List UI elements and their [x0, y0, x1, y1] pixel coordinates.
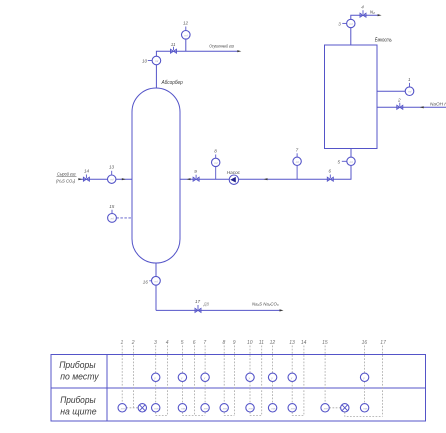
svg-text:по месту: по месту [60, 372, 100, 382]
valve 9 [193, 175, 199, 181]
valve 6 [327, 175, 333, 182]
arrow circulation mid [264, 178, 268, 180]
leader col17 [345, 346, 383, 417]
label underline [57, 176, 77, 178]
instrument circle 5 [347, 157, 355, 165]
svg-text:6: 6 [329, 169, 332, 174]
wire N2 purge line [351, 15, 379, 45]
svg-text:14: 14 [84, 168, 90, 173]
table row2 circle col10 [246, 404, 254, 412]
leader col3 [156, 346, 168, 416]
svg-text:13: 13 [289, 340, 295, 346]
table row1 circle col3 [152, 373, 160, 381]
wire raw gas feed [79, 178, 133, 180]
arrow NaOH [420, 106, 424, 108]
svg-text:тн: тн [271, 406, 275, 410]
svg-text:1: 1 [121, 340, 124, 346]
table row1 circle col12 [268, 373, 276, 381]
svg-text:6: 6 [193, 340, 196, 346]
valve 4 [360, 10, 366, 17]
leader col6 [194, 346, 196, 416]
svg-text:16: 16 [143, 279, 149, 284]
wire impulse line 15 [116, 217, 132, 219]
svg-text:8: 8 [223, 340, 226, 346]
svg-text:17: 17 [380, 340, 386, 346]
svg-text:4: 4 [166, 340, 169, 346]
svg-text:N₂: N₂ [370, 10, 375, 15]
table row2 circle col13 [288, 404, 296, 412]
wire bottom drain pipe [156, 309, 281, 311]
node 5 tag line [342, 160, 347, 162]
table row1 circle col5 [178, 373, 186, 381]
table row2 circle col12 [268, 404, 276, 412]
svg-text:2: 2 [397, 97, 401, 102]
wire top gas outlet riser [156, 51, 238, 88]
svg-text:тн: тн [181, 406, 185, 410]
pump насос [229, 175, 238, 184]
svg-text:10: 10 [247, 340, 253, 346]
svg-text:Приборы: Приборы [60, 395, 96, 405]
table row2 circle col7 [201, 404, 209, 412]
table midline [51, 387, 426, 389]
svg-text:16: 16 [362, 340, 368, 346]
svg-text:8: 8 [214, 149, 217, 154]
table frame [51, 355, 426, 422]
svg-text:Na₂S Na₂CO₃: Na₂S Na₂CO₃ [252, 302, 279, 307]
svg-text:10: 10 [142, 59, 148, 64]
wire tank level stub [377, 90, 405, 92]
svg-text:Осушенный газ: Осушенный газ [209, 43, 234, 49]
table row1 circle col7 [201, 373, 209, 381]
svg-text:тн: тн [324, 406, 328, 410]
leader col12 [272, 346, 274, 404]
svg-text:11: 11 [171, 42, 176, 47]
svg-text:12: 12 [183, 20, 189, 25]
svg-text:тн: тн [363, 406, 367, 410]
svg-text:на щите: на щите [60, 407, 96, 417]
svg-text:9: 9 [233, 340, 236, 346]
table row2 crossed circle 16a [341, 404, 349, 412]
svg-text:тн: тн [121, 406, 125, 410]
instrument circle 7 [296, 166, 298, 180]
table row2 circle col3 [152, 404, 160, 412]
leader col14 [303, 346, 305, 416]
instrument circle 1 [405, 87, 414, 96]
arrow drain [280, 309, 284, 311]
svg-text:9: 9 [194, 169, 197, 174]
svg-text:1: 1 [408, 77, 411, 82]
svg-text:7: 7 [203, 340, 206, 346]
vessel absorber [132, 88, 180, 263]
wire bottom drain riser [155, 263, 157, 310]
svg-text:тl: тl [408, 90, 411, 94]
instrument circle 13 [108, 175, 116, 183]
svg-text:5: 5 [338, 159, 341, 164]
svg-text:тl: тl [155, 279, 158, 283]
svg-text:тн: тн [154, 406, 158, 410]
table row2 circle col8 [220, 404, 228, 412]
leader col13 [292, 346, 304, 416]
svg-text:Насос: Насос [227, 170, 241, 175]
table row1 circle col10 [246, 373, 254, 381]
leader col11 [261, 346, 263, 416]
svg-text:тн: тн [291, 406, 295, 410]
arrow feed at vessel [122, 178, 126, 180]
leader col8 [224, 346, 234, 416]
svg-text:тн: тн [204, 406, 208, 410]
valve 14 [83, 175, 89, 182]
valve 2 [397, 103, 403, 110]
svg-text:2: 2 [131, 340, 135, 346]
leader col7 [204, 346, 206, 416]
table row2 crossed circle 2 [138, 404, 146, 412]
svg-text:17: 17 [195, 299, 201, 304]
svg-text:Абсорбер: Абсорбер [161, 80, 183, 86]
svg-text:13: 13 [109, 165, 115, 170]
svg-text:тн: тн [249, 406, 253, 410]
svg-text:тн: тн [223, 406, 227, 410]
table row1 circle col13 [288, 373, 296, 381]
wire NaOH feed [377, 106, 446, 108]
table row2 circle col15 [321, 404, 329, 412]
svg-text:тl: тl [349, 22, 352, 26]
svg-text:Приборы: Приборы [59, 360, 96, 370]
leader col9 [233, 346, 235, 416]
arrow circulation near vessel [187, 178, 191, 180]
instrument circle 8 [215, 167, 217, 180]
svg-text:тl: тl [111, 216, 114, 220]
svg-text:11: 11 [259, 340, 264, 346]
svg-text:15: 15 [322, 340, 328, 346]
svg-text:14: 14 [301, 340, 307, 346]
leader col2 [126, 346, 138, 408]
instrument circle 12 [182, 31, 191, 40]
svg-text:(H₂S CO₂): (H₂S CO₂) [56, 179, 76, 184]
table header divider [106, 355, 108, 422]
node 16 tag line [149, 280, 151, 282]
wire circulation pipe vessel to tank [180, 149, 351, 180]
leader col16 [364, 346, 366, 404]
valve 11 [171, 47, 177, 54]
table row2 circle col16 [360, 404, 368, 412]
leader col1 [121, 346, 123, 404]
arrow feed start [78, 178, 82, 180]
leader col5 [182, 346, 205, 416]
svg-text:4: 4 [361, 4, 364, 9]
vessel tank Ёмкость [325, 45, 378, 149]
wire stub to instrument 12 [185, 39, 187, 51]
svg-text:12: 12 [270, 340, 276, 346]
leader col4 [166, 346, 168, 416]
svg-text:тl: тl [214, 161, 217, 165]
instrument circle 16 [152, 276, 161, 285]
svg-text:Д8: Д8 [203, 301, 210, 306]
svg-text:5: 5 [181, 340, 184, 346]
svg-text:15: 15 [109, 204, 115, 209]
svg-text:Сырой газ: Сырой газ [57, 170, 76, 176]
instrument circle 10 [152, 56, 161, 65]
table row2 circle col1 [118, 404, 126, 412]
table row2 circle col5 [178, 404, 186, 412]
svg-text:тl: тl [296, 160, 299, 164]
table row1 circle col16 [360, 373, 368, 381]
node 3 tag line [342, 22, 346, 24]
svg-text:тl: тl [155, 59, 158, 63]
arrow N2 [378, 14, 382, 16]
leader col15 [325, 346, 341, 408]
instrument circle 15 [108, 214, 117, 223]
svg-text:тl: тl [110, 178, 113, 182]
svg-text:3: 3 [154, 340, 157, 346]
valve 17 [195, 305, 201, 312]
arrow dried gas [237, 50, 241, 52]
svg-text:3: 3 [338, 22, 341, 27]
svg-text:тl: тl [350, 160, 353, 164]
svg-text:7: 7 [296, 148, 299, 153]
leader col10 [250, 346, 262, 416]
svg-text:тl: тl [184, 33, 187, 37]
node 10 tag line [148, 60, 152, 62]
svg-text:NaOH H₂O: NaOH H₂O [430, 102, 446, 107]
svg-text:Ёмкость: Ёмкость [375, 37, 392, 44]
instrument circle 3 [347, 19, 355, 27]
